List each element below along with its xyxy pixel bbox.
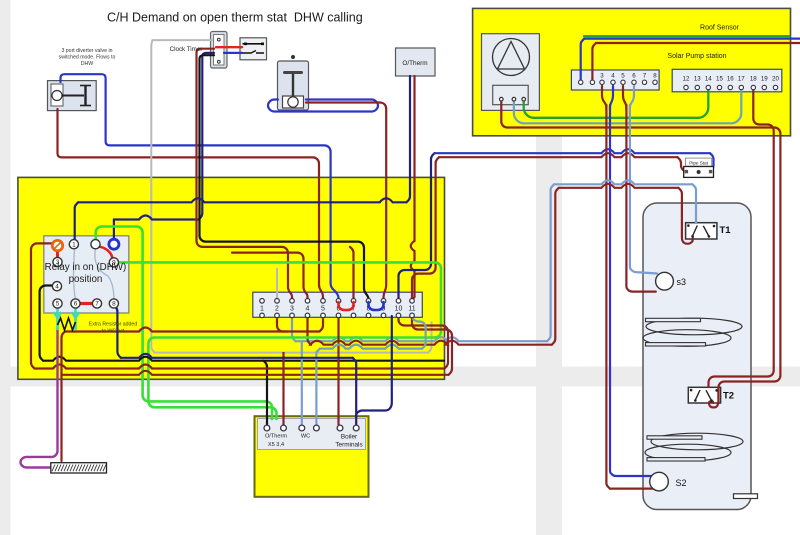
- svg-text:3: 3: [290, 306, 294, 313]
- svg-text:6: 6: [632, 73, 636, 80]
- svg-text:to WC cct: to WC cct: [102, 329, 125, 335]
- svg-text:11: 11: [408, 306, 415, 313]
- svg-text:4: 4: [611, 73, 615, 80]
- svg-text:5: 5: [621, 73, 625, 80]
- svg-text:Extra Resistor added: Extra Resistor added: [89, 322, 138, 328]
- svg-text:switched mode. Flows to: switched mode. Flows to: [59, 55, 116, 61]
- svg-text:18: 18: [750, 76, 757, 83]
- svg-text:4: 4: [55, 283, 59, 290]
- svg-text:Terminals: Terminals: [335, 442, 362, 449]
- svg-text:Relay in on (DHW): Relay in on (DHW): [45, 262, 127, 273]
- svg-text:T2: T2: [723, 391, 734, 402]
- svg-text:4: 4: [306, 306, 310, 313]
- svg-text:7: 7: [95, 301, 99, 308]
- svg-text:5: 5: [321, 306, 325, 313]
- svg-text:Roof Sensor: Roof Sensor: [700, 25, 740, 32]
- svg-text:O/Therm: O/Therm: [265, 433, 287, 439]
- svg-text:O/Therm: O/Therm: [402, 60, 427, 67]
- svg-text:19: 19: [761, 76, 768, 83]
- svg-text:Clock Timer: Clock Timer: [170, 46, 203, 53]
- svg-text:1: 1: [72, 241, 76, 248]
- svg-text:Boiler: Boiler: [341, 433, 358, 440]
- svg-text:14: 14: [705, 76, 712, 83]
- svg-text:7: 7: [643, 73, 647, 80]
- svg-text:8: 8: [112, 301, 116, 308]
- svg-text:15: 15: [716, 76, 723, 83]
- svg-text:10: 10: [395, 306, 403, 313]
- svg-text:1: 1: [260, 306, 264, 313]
- svg-text:C/H Demand on open therm stat: C/H Demand on open therm stat DHW callin…: [107, 11, 363, 25]
- svg-text:3: 3: [600, 73, 604, 80]
- svg-text:position: position: [69, 274, 103, 285]
- svg-text:Pipe Stat: Pipe Stat: [689, 161, 708, 166]
- svg-text:Solar Pump station: Solar Pump station: [667, 53, 726, 60]
- svg-text:S2: S2: [676, 478, 687, 488]
- svg-text:2: 2: [275, 306, 279, 313]
- svg-text:s3: s3: [677, 277, 687, 287]
- svg-text:12: 12: [683, 76, 690, 83]
- svg-text:T1: T1: [720, 225, 732, 236]
- svg-text:3 port diverter valve in: 3 port diverter valve in: [61, 48, 112, 54]
- svg-text:13: 13: [694, 76, 701, 83]
- svg-text:DHW: DHW: [81, 61, 93, 67]
- svg-text:8: 8: [653, 73, 657, 80]
- svg-text:5: 5: [56, 301, 60, 308]
- svg-text:20: 20: [772, 76, 779, 83]
- svg-text:X5 3,4: X5 3,4: [268, 442, 284, 448]
- svg-text:6: 6: [74, 301, 78, 308]
- svg-text:17: 17: [738, 76, 745, 83]
- svg-text:WC: WC: [301, 433, 310, 439]
- svg-text:16: 16: [727, 76, 734, 83]
